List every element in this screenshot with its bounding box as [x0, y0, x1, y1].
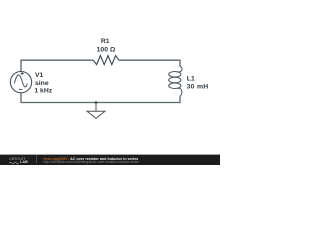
svg-text:L1: L1 [187, 76, 195, 83]
ground stem [95, 103, 97, 112]
node junction dot [95, 101, 98, 104]
watermark line 2 [44, 161, 139, 165]
wire top right [119, 60, 180, 66]
logo LAB [20, 161, 28, 165]
ground triangle [87, 111, 105, 118]
watermark line 1 [44, 157, 139, 161]
source V1 sine [14, 75, 27, 87]
inductor L1 exit curve [177, 88, 182, 96]
wire top left [21, 60, 93, 71]
svg-text:30 mH: 30 mH [187, 84, 209, 91]
source V1 minus [19, 88, 22, 90]
inductor L1 entry curve [177, 66, 183, 72]
svg-text:sine: sine [35, 80, 49, 87]
inductor L1 loop 1 [169, 72, 181, 78]
source V1 plus [21, 72, 24, 75]
logo CIRCUIT [9, 158, 25, 162]
logo waveform [9, 161, 20, 165]
svg-text:R1: R1 [101, 38, 110, 45]
watermark bar [0, 155, 220, 165]
watermark separator [35, 155, 38, 163]
inductor L1 loop 3 [169, 83, 181, 89]
svg-text:100 Ω: 100 Ω [97, 46, 116, 53]
wire bottom [21, 93, 180, 103]
source V1 circle [10, 71, 31, 92]
svg-text:V1: V1 [35, 72, 44, 79]
inductor L1 loop 2 [169, 77, 181, 83]
resistor R1 [93, 56, 119, 65]
svg-text:1 kHz: 1 kHz [34, 88, 52, 95]
